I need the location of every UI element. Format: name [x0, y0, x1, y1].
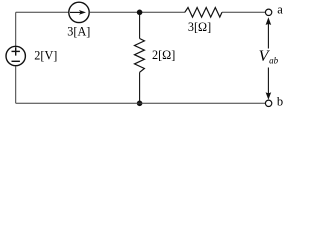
svg-text:3[Ω]: 3[Ω]: [188, 20, 211, 34]
resistor R2 3[Ohm]: [185, 8, 222, 18]
svg-text:b: b: [277, 95, 283, 109]
svg-text:2[V]: 2[V]: [34, 48, 57, 62]
label 3[Ohm]: [188, 20, 211, 34]
wire middle branch lower stub: [139, 72, 141, 103]
label Vab: [259, 48, 279, 65]
wire top middle: [89, 11, 185, 13]
label a: [277, 3, 283, 17]
node top junction: [137, 10, 143, 16]
current source I1 3[A]: [69, 2, 89, 22]
wire bottom: [16, 102, 266, 104]
wire top-left horizontal: [16, 11, 69, 13]
Vab arrow up: [266, 17, 272, 48]
wire top right: [222, 11, 265, 13]
svg-text:ab: ab: [269, 56, 279, 66]
svg-text:a: a: [277, 3, 283, 17]
wire left vertical upper: [15, 12, 17, 46]
voltage source V1 2[V]: [6, 46, 25, 65]
svg-text:3[A]: 3[A]: [67, 25, 90, 39]
terminal b: [265, 100, 271, 106]
label 2[V]: [34, 48, 57, 62]
label 3[A]: [67, 25, 90, 39]
node bottom junction: [137, 101, 143, 107]
terminal a: [265, 9, 271, 15]
Vab arrow down: [266, 68, 272, 100]
wire left vertical lower: [15, 66, 17, 103]
wire middle branch upper stub: [139, 12, 141, 38]
label b: [277, 95, 283, 109]
svg-text:2[Ω]: 2[Ω]: [152, 48, 175, 62]
label 2[Ohm]: [152, 48, 175, 62]
resistor R1 2[Ohm] vertical: [135, 39, 145, 73]
